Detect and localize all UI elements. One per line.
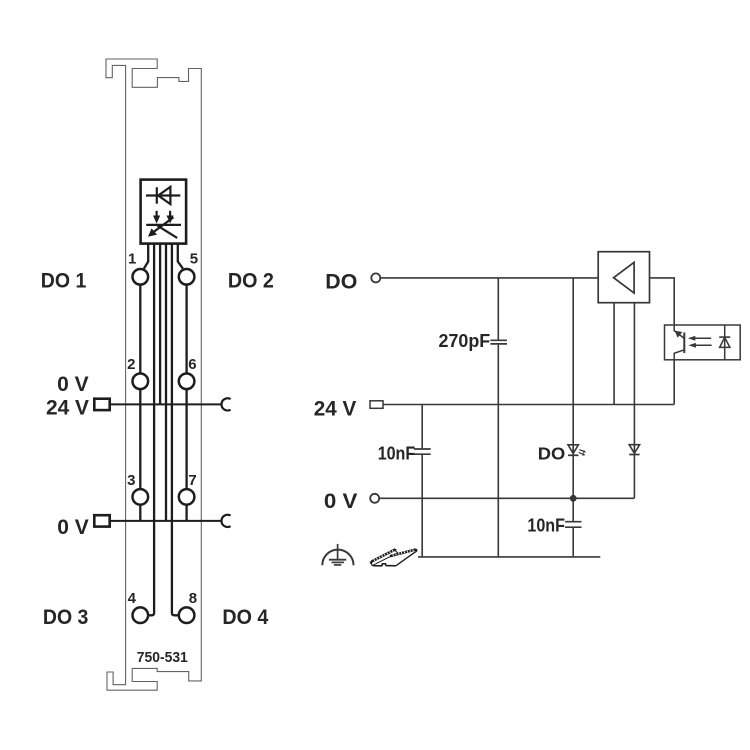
- label 270pF: [439, 331, 491, 351]
- terminal 1: [133, 269, 149, 285]
- surge arrows symbol inside U1: [146, 211, 181, 238]
- label 0 V row3: [57, 515, 89, 539]
- svg-text:DO 4: DO 4: [222, 605, 268, 629]
- terminal 7: [179, 489, 195, 505]
- svg-text:10nF: 10nF: [527, 515, 565, 535]
- wire terminal 7 to 0V rail: [185, 506, 187, 521]
- 0V rail square terminal: [94, 515, 109, 526]
- label 10nF C2: [378, 443, 416, 463]
- DIN rail clamp icon: [370, 548, 418, 565]
- svg-text:5: 5: [190, 250, 198, 267]
- wire optocoupler emitter to 24V rail: [673, 360, 675, 405]
- wire terminal 5 to terminal 6: [185, 286, 187, 373]
- diode D2 wire from amp: [633, 303, 635, 499]
- pin number 1: [128, 250, 136, 267]
- junction node: [570, 495, 577, 502]
- terminal 8: [179, 607, 195, 623]
- terminal 6: [179, 374, 195, 390]
- wire amp to optocoupler: [650, 278, 675, 325]
- svg-text:270pF: 270pF: [439, 331, 491, 351]
- pin number 3: [127, 472, 135, 489]
- wire from U1 to 24V rail: [159, 244, 161, 405]
- label DO 2: [228, 268, 274, 292]
- svg-text:2: 2: [127, 356, 135, 373]
- label DO at LED: [538, 444, 566, 464]
- 0V rail wire: [110, 520, 222, 522]
- capacitor C3 wire lower: [572, 528, 574, 557]
- wire terminal 3 to 0V rail: [139, 506, 141, 521]
- svg-text:10nF: 10nF: [378, 443, 416, 463]
- terminal 3: [133, 489, 149, 505]
- pin number 2: [127, 356, 135, 373]
- wire from U1 to terminal 1: [144, 244, 148, 269]
- 24V square terminal right: [370, 401, 383, 409]
- svg-text:6: 6: [188, 356, 196, 373]
- label DO 4: [222, 605, 268, 629]
- diode symbol inside U1: [146, 187, 180, 204]
- wire terminal 1 to terminal 2: [139, 286, 141, 373]
- module outline 750-531 housing: [106, 59, 201, 690]
- phototransistor Q1: [674, 325, 684, 360]
- capacitor C3 10nF: [565, 522, 581, 528]
- optocoupler light arrows: [688, 336, 712, 348]
- pin number 4: [128, 590, 137, 607]
- capacitor C1 270pF wire upper: [497, 278, 499, 340]
- DO wire: [380, 277, 598, 279]
- pin number 7: [188, 472, 196, 489]
- optocoupler diode D3: [719, 325, 730, 360]
- amp pin to 24V rail: [613, 303, 615, 405]
- label 0 V row2: [57, 372, 89, 396]
- wire from U1 to 0V rail: [165, 244, 167, 521]
- svg-text:DO 3: DO 3: [43, 605, 89, 629]
- shield wire: [418, 556, 600, 558]
- 0V terminal right: [370, 494, 379, 503]
- label DO 1: [41, 268, 87, 292]
- svg-text:4: 4: [128, 590, 137, 607]
- svg-text:3: 3: [127, 472, 135, 489]
- pin number 6: [188, 356, 196, 373]
- svg-text:0 V: 0 V: [324, 489, 358, 513]
- svg-text:7: 7: [188, 472, 196, 489]
- wire terminal 2 to terminal 3: [139, 390, 141, 488]
- svg-text:750-531: 750-531: [137, 649, 188, 666]
- label 750-531: [137, 649, 188, 666]
- terminal 2: [133, 374, 149, 390]
- label DO 3: [43, 605, 89, 629]
- svg-text:24 V: 24 V: [314, 396, 357, 420]
- wire from U1 to terminal 5: [178, 244, 183, 269]
- pin number 8: [189, 590, 197, 607]
- svg-text:DO 2: DO 2: [228, 268, 274, 292]
- capacitor C2 wire lower: [421, 455, 423, 557]
- DO terminal: [371, 273, 380, 282]
- svg-text:DO: DO: [325, 269, 357, 293]
- capacitor C2 10nF wire upper: [421, 405, 423, 449]
- svg-text:0 V: 0 V: [57, 515, 89, 539]
- 24V rail wire: [110, 403, 222, 405]
- wire from U1 to terminal 4: [148, 244, 154, 616]
- label 10nF C3: [527, 515, 565, 535]
- amplifier U2 box: [598, 252, 649, 303]
- optocoupler U3 box: [665, 325, 741, 360]
- label 0 V right schematic: [324, 489, 358, 513]
- svg-text:1: 1: [128, 250, 136, 267]
- earth ground symbol: [322, 544, 353, 565]
- 0V wire right schematic: [379, 497, 634, 499]
- wire terminal 6 to terminal 7: [185, 390, 187, 488]
- label DO right schematic: [325, 269, 357, 293]
- pin number 5: [190, 250, 198, 267]
- svg-text:DO: DO: [538, 444, 566, 464]
- svg-text:DO 1: DO 1: [41, 268, 87, 292]
- LED branch wire upper: [572, 278, 574, 521]
- svg-text:24 V: 24 V: [46, 395, 90, 419]
- label 24 V right schematic: [314, 396, 357, 420]
- 24V rail right schematic: [383, 404, 674, 406]
- svg-text:8: 8: [189, 590, 197, 607]
- 0V rail jumper contact: [221, 515, 230, 527]
- 24V rail square terminal: [94, 399, 109, 410]
- terminal 4: [133, 607, 149, 623]
- capacitor C2 10nF: [414, 449, 431, 454]
- 24V rail jumper contact: [221, 398, 230, 410]
- label 24 V left: [46, 395, 90, 419]
- svg-text:0 V: 0 V: [57, 372, 89, 396]
- LED DO: [568, 445, 586, 456]
- wire from U1 to terminal 8: [172, 244, 179, 616]
- terminal 5: [179, 269, 195, 285]
- electronics box U1: [141, 180, 187, 244]
- diode D2: [629, 445, 639, 455]
- capacitor C1 wire lower: [497, 345, 499, 557]
- capacitor C1 270pF: [490, 340, 507, 344]
